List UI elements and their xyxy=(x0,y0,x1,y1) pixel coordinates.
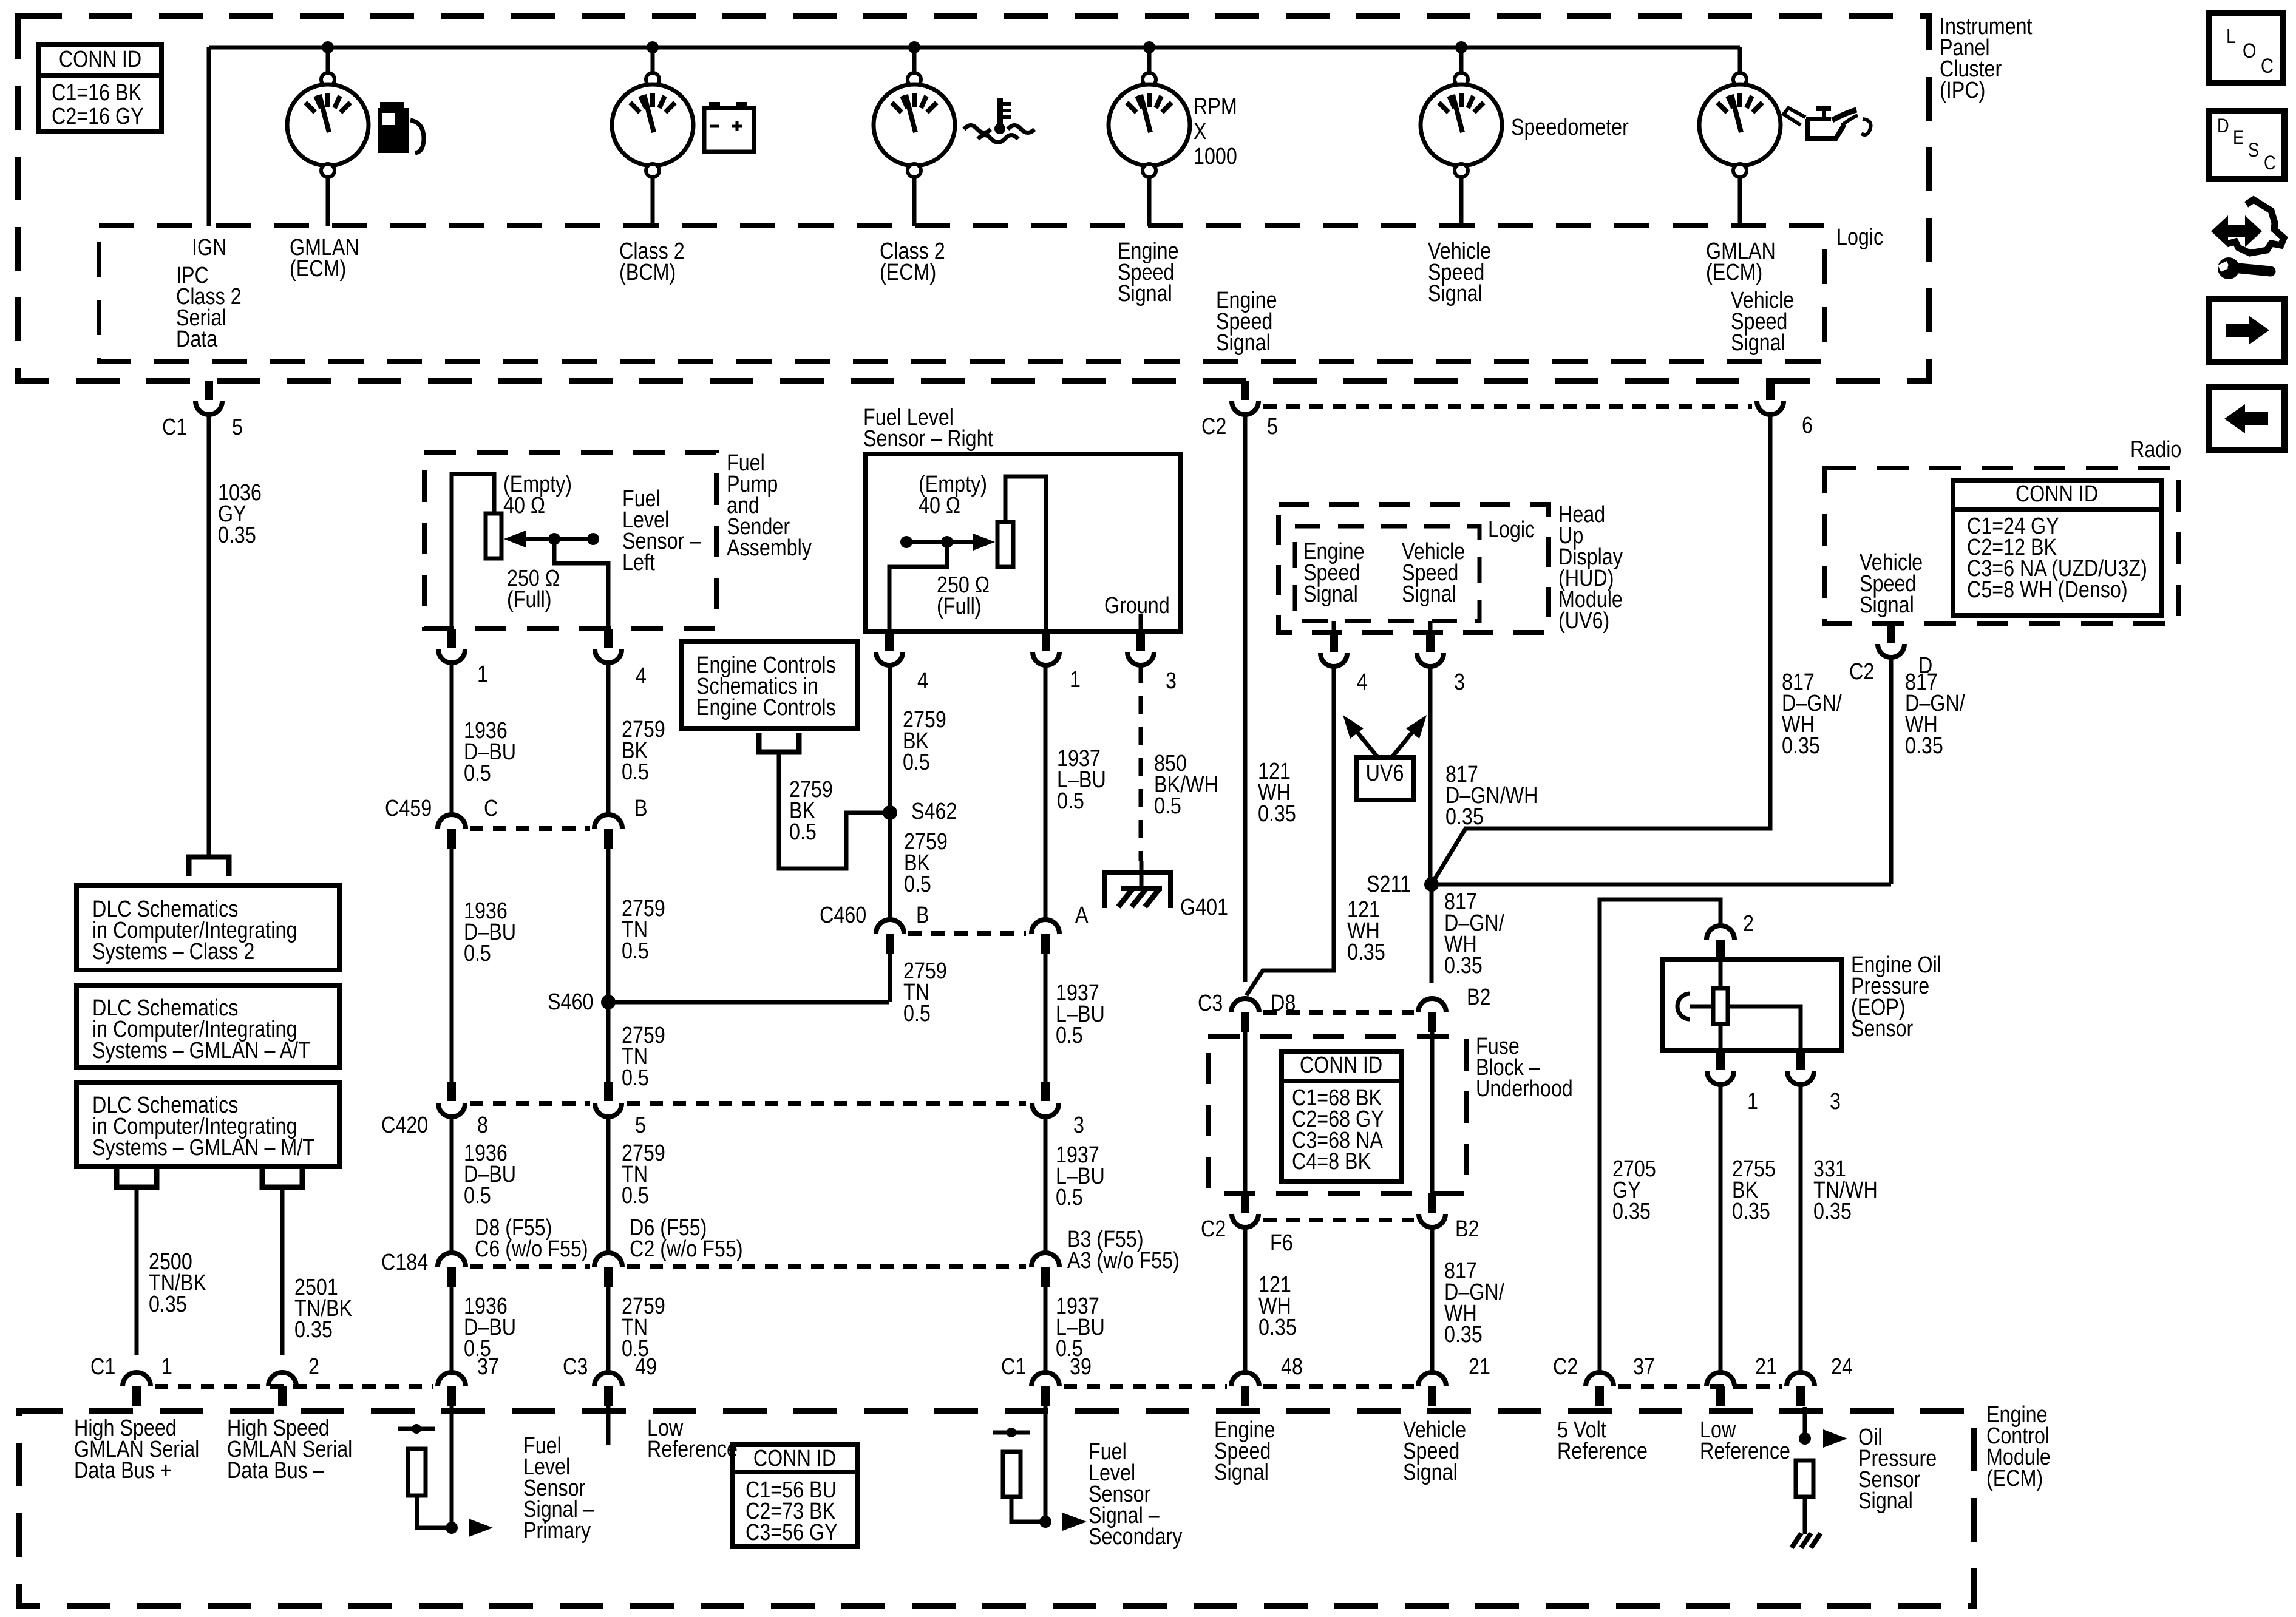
svg-text:0.35: 0.35 xyxy=(218,523,256,548)
connector EOP pin 3 xyxy=(1796,1051,1805,1070)
svg-text:0.35: 0.35 xyxy=(1258,801,1296,827)
wire stem to oil pressure gauge xyxy=(1738,47,1742,73)
svg-text:O: O xyxy=(2243,39,2256,63)
svg-text:C3: C3 xyxy=(1198,991,1223,1016)
box Fuel Level Sensor - Left (dashed) xyxy=(424,452,716,629)
svg-text:1: 1 xyxy=(161,1354,172,1380)
wire 817 D-GN/WH from HUD pin3 to S211 xyxy=(1428,666,1433,884)
svg-text:(ECM): (ECM) xyxy=(880,260,936,285)
svg-text:Ground: Ground xyxy=(1104,593,1170,619)
svg-text:Sensor: Sensor xyxy=(1851,1016,1914,1042)
svg-text:Speedometer: Speedometer xyxy=(1511,115,1629,140)
arrow UV6 right xyxy=(1393,724,1419,756)
svg-text:Signal: Signal xyxy=(1428,281,1483,307)
wire voltage gauge to logic box xyxy=(651,176,655,226)
junction S211 xyxy=(1424,877,1439,892)
svg-text:Primary: Primary xyxy=(523,1518,591,1544)
wire 2759 BK pin4-left xyxy=(606,663,611,813)
svg-text:S211: S211 xyxy=(1367,872,1411,897)
svg-text:49: 49 xyxy=(635,1354,657,1380)
wire 331 TN/WH to ECM 24 xyxy=(1799,1085,1803,1371)
svg-text:G401: G401 xyxy=(1180,895,1228,920)
junction + arrow fuel primary xyxy=(446,1522,458,1534)
svg-text:S: S xyxy=(2248,140,2259,161)
connector ECM pin 48 xyxy=(1231,1372,1259,1386)
terminal below DLC box (bus -) xyxy=(262,1168,302,1187)
wire 2759 TN C460 to S460 xyxy=(888,954,892,1002)
wire 2759 TN C184 to ECM xyxy=(606,1287,611,1371)
svg-text:0.5: 0.5 xyxy=(622,1065,649,1091)
connector ECM C2 pin 24 xyxy=(1787,1372,1815,1386)
Engine Control Module (ECM) dashed box xyxy=(19,1411,1974,1606)
resistor ECM fuel primary xyxy=(398,1427,435,1431)
svg-text:21: 21 xyxy=(1469,1354,1490,1380)
wire fuel gauge to logic box xyxy=(326,176,330,226)
connector radio C2 pin D xyxy=(1887,623,1895,643)
wire 2759 BK pin4-right to S462 xyxy=(888,665,892,813)
wire stem to voltage gauge xyxy=(651,47,655,73)
resistor ECM fuel secondary xyxy=(993,1431,1030,1435)
svg-text:1: 1 xyxy=(477,662,488,687)
svg-text:1: 1 xyxy=(1070,667,1081,693)
wire oil pressure gauge to logic box xyxy=(1738,176,1742,226)
box Engine Oil Pressure sensor xyxy=(1662,960,1841,1051)
svg-text:C5=8 WH (Denso): C5=8 WH (Denso) xyxy=(1967,577,2128,603)
svg-text:0.5: 0.5 xyxy=(789,819,817,845)
svg-text:0.35: 0.35 xyxy=(1813,1199,1852,1224)
wire EOP branch to pin3 xyxy=(1728,1006,1801,1051)
svg-text:0.35: 0.35 xyxy=(1347,940,1385,965)
wire 2500 TN/BK xyxy=(135,1187,139,1355)
svg-text:Reference: Reference xyxy=(1557,1439,1648,1464)
box Head Up Display module (dashed) xyxy=(1279,504,1549,632)
svg-text:B2: B2 xyxy=(1467,985,1490,1010)
connector C2 pin 5 (IPC) xyxy=(1241,381,1249,400)
svg-text:C1: C1 xyxy=(162,415,187,440)
wire 817 IPC pin6 branch xyxy=(1432,415,1770,884)
wire ground pin3 internal xyxy=(1139,614,1143,631)
wire stem to fuel gauge xyxy=(326,47,330,73)
wire 121 WH from HUD pin4 xyxy=(1246,666,1334,995)
box CONN ID (IPC) xyxy=(39,45,161,132)
connector ECM pin 37 (C1) xyxy=(438,1372,466,1386)
wire 817 fuse B2 to ECM 21 xyxy=(1430,1227,1435,1371)
wire ECM pin24 internal + arrow xyxy=(1803,1407,1807,1439)
resistor EOP xyxy=(1719,960,1723,988)
svg-text:(Full): (Full) xyxy=(507,587,552,612)
svg-text:F6: F6 xyxy=(1270,1230,1293,1256)
resistor fuel sender left xyxy=(486,514,501,558)
connector sensor-left pin 1 xyxy=(447,629,456,648)
connector C1 pin 5 (IPC) xyxy=(205,381,213,400)
svg-text:(ECM): (ECM) xyxy=(290,256,346,282)
svg-text:Signal: Signal xyxy=(1216,330,1271,356)
icon box arrow left xyxy=(2209,387,2284,450)
svg-text:Signal: Signal xyxy=(1303,581,1358,607)
connector row dashed line fuse bottom xyxy=(1263,1218,1414,1222)
svg-text:C459: C459 xyxy=(385,796,432,821)
svg-text:(BCM): (BCM) xyxy=(619,260,676,285)
voltage gauge xyxy=(646,73,659,86)
connector sensor-right pin 3 xyxy=(1136,631,1145,651)
svg-text:Signal: Signal xyxy=(1731,330,1785,356)
wire 121 WH fuse F6 to ECM 48 xyxy=(1243,1227,1248,1371)
wire ECM pin39 internal xyxy=(1044,1406,1048,1522)
wire 121 WH from IPC C2-5 to fuse C3/D8 xyxy=(1243,415,1248,982)
svg-text:37: 37 xyxy=(1633,1354,1655,1380)
svg-text:Reference: Reference xyxy=(1700,1439,1790,1464)
svg-text:0.35: 0.35 xyxy=(1612,1199,1651,1224)
svg-text:Signal: Signal xyxy=(1403,1460,1458,1485)
svg-text:0.5: 0.5 xyxy=(1056,1185,1083,1210)
ground G401 xyxy=(1140,861,1144,889)
terminal below DLC box (bus +) xyxy=(117,1168,157,1187)
svg-text:Data Bus +: Data Bus + xyxy=(74,1458,172,1483)
chassis ground (ECM oil) xyxy=(1792,1533,1801,1548)
svg-text:Signal: Signal xyxy=(1214,1460,1269,1485)
svg-text:8: 8 xyxy=(477,1113,488,1138)
wire 1936 D-BU seg3 xyxy=(450,1117,454,1251)
wire stem to speedometer gauge xyxy=(1459,47,1464,73)
connector row dashed line ECM C1a xyxy=(155,1384,433,1389)
connector B (C459 row) xyxy=(594,815,622,829)
wire temperature gauge to logic box xyxy=(912,176,917,226)
box DLC Schematics GMLAN M/T xyxy=(76,1082,339,1167)
connector C460 pin B xyxy=(876,920,904,934)
icon battery xyxy=(709,102,720,110)
svg-text:5: 5 xyxy=(635,1113,646,1138)
svg-text:Systems – Class 2: Systems – Class 2 xyxy=(92,939,254,964)
svg-text:0.5: 0.5 xyxy=(464,941,491,966)
svg-text:2: 2 xyxy=(1743,911,1754,937)
connector row dashed line fuse top xyxy=(1263,1010,1414,1015)
svg-text:Sensor – Right: Sensor – Right xyxy=(863,426,993,452)
svg-text:D: D xyxy=(2217,115,2229,137)
svg-text:C1: C1 xyxy=(1001,1354,1026,1380)
wiper arrow (left sensor) xyxy=(504,531,526,547)
box CONN ID (radio) xyxy=(1953,481,2161,615)
junction S462 xyxy=(883,805,897,820)
svg-text:0.35: 0.35 xyxy=(294,1317,333,1343)
svg-text:C2: C2 xyxy=(1201,414,1226,439)
svg-text:IGN: IGN xyxy=(192,235,226,260)
icon box arrow right xyxy=(2209,299,2284,362)
svg-text:UV6: UV6 xyxy=(1366,761,1404,786)
icon box DESC xyxy=(2209,111,2284,179)
svg-text:39: 39 xyxy=(1070,1354,1092,1380)
svg-text:Signal: Signal xyxy=(1860,592,1914,618)
svg-text:C1=16 BK: C1=16 BK xyxy=(52,80,142,106)
svg-text:3: 3 xyxy=(1073,1113,1084,1138)
svg-text:0.35: 0.35 xyxy=(149,1292,187,1317)
box DLC Schematics Class 2 xyxy=(76,886,339,970)
svg-text:(IPC): (IPC) xyxy=(1940,78,1985,103)
wire wiper to pin 4 (left) xyxy=(554,539,608,629)
svg-text:Radio: Radio xyxy=(2130,437,2181,463)
wire 2755 BK to ECM 21 xyxy=(1719,1085,1723,1371)
svg-text:24: 24 xyxy=(1831,1354,1853,1380)
svg-text:0.5: 0.5 xyxy=(904,872,931,897)
svg-text:48: 48 xyxy=(1281,1354,1303,1380)
svg-text:RPM: RPM xyxy=(1194,94,1237,120)
svg-text:0.5: 0.5 xyxy=(903,750,930,775)
svg-text:E: E xyxy=(2233,127,2244,149)
wire ECM pin37 internal xyxy=(450,1406,454,1528)
junction bus at x=1893 xyxy=(1143,41,1155,53)
wire sensor-left pin1 internal xyxy=(452,474,494,629)
connector ECM pin 39 (C1) xyxy=(1031,1372,1059,1386)
junction + arrow fuel secondary xyxy=(1039,1516,1051,1528)
connector C420 pin 5 xyxy=(604,1082,613,1101)
box Fuel Level Sensor - Right (solid) xyxy=(866,454,1181,631)
svg-text:B: B xyxy=(916,903,929,928)
icon box LOC xyxy=(2209,13,2283,83)
icon oil can xyxy=(1808,119,1844,138)
svg-text:B: B xyxy=(634,796,648,821)
wire 2759 TN seg B to S460 xyxy=(606,849,611,1002)
svg-text:C: C xyxy=(484,796,498,821)
svg-text:CONN ID: CONN ID xyxy=(1300,1053,1382,1078)
svg-text:5: 5 xyxy=(232,415,243,440)
wire 1936 D-BU seg2 xyxy=(450,849,454,1082)
icon harness/wrench xyxy=(2211,215,2262,247)
fuel gauge xyxy=(321,73,335,86)
connector pin 6 (IPC) xyxy=(1766,381,1775,400)
svg-text:Signal: Signal xyxy=(1118,281,1172,307)
svg-text:C184: C184 xyxy=(381,1250,428,1275)
svg-text:6: 6 xyxy=(1802,413,1813,438)
wire 1036 GY from C1-5 to DLC terminal xyxy=(207,415,211,855)
terminal below Engine Controls box xyxy=(759,733,799,752)
connector sensor-right pin 1 xyxy=(1042,631,1050,651)
connector ECM C2 pin 37 xyxy=(1586,1372,1614,1386)
svg-text:4: 4 xyxy=(1357,670,1368,695)
arrow UV6 left xyxy=(1350,724,1377,756)
wire IGN drop xyxy=(207,47,211,226)
svg-text:0.5: 0.5 xyxy=(464,761,491,786)
svg-text:Systems – GMLAN – A/T: Systems – GMLAN – A/T xyxy=(92,1038,310,1063)
svg-text:C2 (w/o F55): C2 (w/o F55) xyxy=(630,1236,743,1262)
temperature gauge xyxy=(908,73,921,86)
svg-text:L: L xyxy=(2226,24,2236,48)
svg-text:C2: C2 xyxy=(1553,1354,1578,1380)
connector C184 (1936) xyxy=(438,1253,466,1267)
svg-text:(ECM): (ECM) xyxy=(1986,1466,2043,1491)
svg-text:0.5: 0.5 xyxy=(622,759,649,785)
connector HUD pin 3 xyxy=(1428,621,1433,632)
svg-text:C3=56 GY: C3=56 GY xyxy=(746,1520,838,1545)
Instrument Panel Cluster (IPC) dashed box xyxy=(18,16,1929,381)
svg-text:0.35: 0.35 xyxy=(1444,953,1483,978)
wire 1937 L-BU to C184 row xyxy=(1044,1117,1048,1251)
connector sensor-left pin 4 xyxy=(604,629,613,648)
wire IPC internal bus xyxy=(209,46,1740,50)
svg-text:S460: S460 xyxy=(548,989,593,1015)
svg-text:(Full): (Full) xyxy=(937,594,982,619)
box Radio (dashed) xyxy=(1825,468,2178,623)
svg-text:40 Ω: 40 Ω xyxy=(919,493,960,518)
svg-text:0.35: 0.35 xyxy=(1445,804,1484,830)
svg-text:Assembly: Assembly xyxy=(727,535,812,561)
svg-text:(ECM): (ECM) xyxy=(1706,260,1762,285)
box Fuse Block - Underhood (dashed) xyxy=(1208,1037,1467,1193)
svg-text:B2: B2 xyxy=(1455,1216,1479,1242)
svg-text:(UV6): (UV6) xyxy=(1558,608,1609,634)
box CONN ID (ECM) xyxy=(732,1445,857,1547)
svg-text:Signal: Signal xyxy=(1858,1488,1913,1514)
connector 3 (C420 row) xyxy=(1041,1082,1050,1101)
box UV6 xyxy=(1356,758,1413,800)
connector fuse C2/F6 xyxy=(1241,1193,1249,1213)
svg-text:0.5: 0.5 xyxy=(464,1183,491,1209)
svg-text:40 Ω: 40 Ω xyxy=(503,493,545,518)
svg-text:C2=16 GY: C2=16 GY xyxy=(52,104,144,129)
connector row dashed line ECM C2 xyxy=(1618,1384,1782,1389)
connector fuse B2 bottom xyxy=(1428,1193,1436,1213)
svg-text:21: 21 xyxy=(1755,1354,1777,1380)
svg-text:5: 5 xyxy=(1267,414,1278,439)
icon fuel pump xyxy=(380,102,404,108)
connector row dashed line ECM C1b xyxy=(1064,1384,1227,1389)
connector row dashed line C460 xyxy=(908,931,1026,936)
wire 2759 BK S462 to C460 xyxy=(888,813,892,918)
junction bus at x=540 xyxy=(322,41,334,53)
svg-text:Logic: Logic xyxy=(1836,225,1883,250)
wire ECM pin49 internal xyxy=(606,1406,611,1445)
svg-text:Reference: Reference xyxy=(647,1437,738,1462)
svg-text:0.5: 0.5 xyxy=(1154,793,1181,819)
svg-text:0.5: 0.5 xyxy=(903,1001,931,1026)
svg-text:C3: C3 xyxy=(563,1354,588,1380)
svg-text:C: C xyxy=(2264,152,2276,174)
svg-text:CONN ID: CONN ID xyxy=(2016,481,2098,507)
wire 817 S211 to radio xyxy=(1432,883,1891,887)
wire 2501 TN/BK xyxy=(280,1187,285,1355)
svg-text:C2: C2 xyxy=(1201,1216,1226,1242)
svg-text:3: 3 xyxy=(1830,1089,1841,1114)
svg-text:2: 2 xyxy=(308,1354,319,1380)
wire 2759 BK jumper to S462 xyxy=(779,752,890,869)
svg-text:Systems – GMLAN – M/T: Systems – GMLAN – M/T xyxy=(92,1135,314,1161)
wire tachometer to logic box xyxy=(1147,176,1152,226)
wire 2705 GY ECM C2-37 to EOP pin2 xyxy=(1600,900,1720,1371)
svg-text:0.5: 0.5 xyxy=(1057,788,1084,814)
svg-text:C1: C1 xyxy=(90,1354,115,1380)
connector fuse B2 top xyxy=(1418,998,1446,1012)
wire wiper to pin 4 (right) xyxy=(889,542,947,631)
svg-text:0.35: 0.35 xyxy=(1782,733,1820,759)
wiper arrow (right sensor) xyxy=(906,540,974,544)
connector ECM pin 49 (C3) xyxy=(594,1372,622,1386)
svg-text:0.5: 0.5 xyxy=(1056,1023,1083,1048)
svg-text:0.5: 0.5 xyxy=(622,938,649,964)
svg-text:3: 3 xyxy=(1454,670,1465,695)
svg-text:A3 (w/o F55): A3 (w/o F55) xyxy=(1067,1248,1180,1273)
svg-text:CONN ID: CONN ID xyxy=(753,1446,836,1471)
svg-text:C2: C2 xyxy=(1849,659,1874,685)
connector ECM C1 pin 1 xyxy=(123,1372,151,1386)
svg-text:0.35: 0.35 xyxy=(1732,1199,1770,1224)
speedometer gauge xyxy=(1455,73,1468,86)
svg-text:1: 1 xyxy=(1747,1089,1758,1114)
svg-text:4: 4 xyxy=(636,663,647,689)
connector fuse C3/D8 xyxy=(1231,998,1259,1012)
connector C184 (1937) xyxy=(1031,1253,1059,1267)
box Engine Controls Schematics xyxy=(681,642,858,728)
connector EOP pin 2 xyxy=(1707,926,1734,940)
wire stem to temperature gauge xyxy=(912,47,917,73)
wire 1936 D-BU seg1 xyxy=(450,663,454,813)
connector sensor-right pin 4 xyxy=(885,631,894,651)
svg-text:C420: C420 xyxy=(381,1113,428,1138)
svg-text:Left: Left xyxy=(622,550,655,575)
resistor ECM oil xyxy=(1796,1460,1813,1497)
wire 1937 L-BU A to C420row xyxy=(1044,954,1048,1082)
junction bus at x=1075 xyxy=(647,41,659,53)
tachometer xyxy=(1143,73,1156,86)
svg-text:37: 37 xyxy=(477,1354,499,1380)
junction bus at x=1506 xyxy=(908,41,920,53)
box DLC Schematics GMLAN A/T xyxy=(76,985,339,1068)
svg-text:C460: C460 xyxy=(820,903,866,928)
connector A (C460 row) xyxy=(1031,920,1059,934)
wire 817 S211 to fuse B2 xyxy=(1430,884,1434,983)
oil pressure gauge xyxy=(1733,73,1747,86)
wire sensor-right pin1 internal xyxy=(1005,476,1046,631)
svg-text:0.5: 0.5 xyxy=(622,1183,649,1209)
terminal at DLC Class 2 box xyxy=(189,857,229,876)
connector row dashed line C459 xyxy=(470,826,590,831)
connector ECM pin 21 (C1) xyxy=(1418,1372,1446,1386)
wire fuse internal left xyxy=(1243,1032,1248,1193)
connector C459 pin C xyxy=(438,815,466,829)
wire 1937 L-BU to ECM pin39 xyxy=(1044,1287,1048,1371)
svg-text:X: X xyxy=(1194,119,1207,144)
box HUD logic (dashed) xyxy=(1295,526,1479,621)
svg-text:Data Bus –: Data Bus – xyxy=(227,1458,324,1483)
connector EOP pin 1 xyxy=(1716,1051,1725,1070)
svg-text:C6 (w/o F55): C6 (w/o F55) xyxy=(475,1236,588,1262)
connector ECM C1 pin 2 xyxy=(268,1372,296,1386)
connector ECM C2 pin 21 xyxy=(1707,1372,1734,1386)
wire fuse internal right xyxy=(1430,1032,1435,1193)
svg-text:S462: S462 xyxy=(911,799,957,824)
svg-text:4: 4 xyxy=(917,668,928,694)
svg-text:Logic: Logic xyxy=(1488,517,1535,543)
svg-text:0.35: 0.35 xyxy=(1258,1315,1297,1340)
svg-text:1000: 1000 xyxy=(1194,144,1237,169)
svg-text:A: A xyxy=(1075,903,1089,928)
wire 1936 D-BU seg4 xyxy=(450,1287,454,1371)
junction bus at x=2407 xyxy=(1455,41,1467,53)
wire stem to tachometer xyxy=(1147,47,1152,73)
svg-text:C4=8 BK: C4=8 BK xyxy=(1292,1149,1371,1175)
svg-text:Underhood: Underhood xyxy=(1476,1076,1573,1102)
wire 850 BK/WH dashed to G401 xyxy=(1139,665,1143,861)
connector row dashed line C184 xyxy=(470,1264,590,1269)
connector row dashed line ECM C1c xyxy=(1263,1384,1414,1389)
svg-text:0.35: 0.35 xyxy=(1905,733,1943,759)
svg-text:Engine Controls: Engine Controls xyxy=(696,695,836,720)
svg-text:3: 3 xyxy=(1166,668,1177,694)
svg-text:0.35: 0.35 xyxy=(1444,1322,1483,1347)
svg-text:Signal: Signal xyxy=(1402,581,1456,607)
wire 2759 TN C420 to C184 xyxy=(606,1117,611,1251)
connector C420 pin 8 xyxy=(447,1082,456,1101)
icon coolant temperature xyxy=(997,98,1003,127)
svg-text:Data: Data xyxy=(176,327,218,352)
resistor fuel sender right xyxy=(997,522,1013,567)
